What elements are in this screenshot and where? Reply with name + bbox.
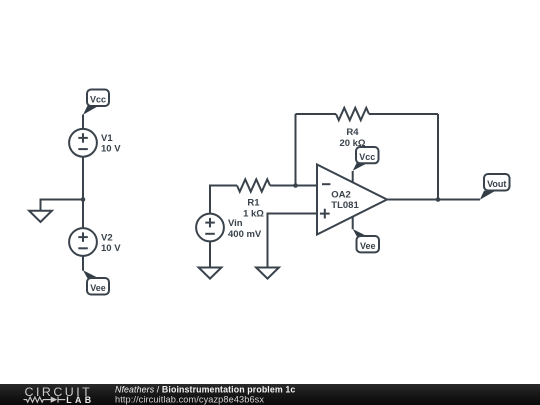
junction node output: [436, 197, 441, 202]
footer logo resistor-diode mark: [24, 397, 66, 403]
svg-text:http://circuitlab.com/cyazp8e4: http://circuitlab.com/cyazp8e43b6sx: [115, 394, 264, 404]
svg-text:OA2: OA2: [331, 189, 351, 200]
svg-text:V2: V2: [101, 232, 113, 243]
wire feedback top right: [369, 113, 438, 115]
net flag Vcc (left) wedge: [83, 106, 99, 115]
op-amp Vcc power pin: [352, 171, 354, 183]
op-amp OA2 triangle: [317, 165, 387, 235]
wire feedback right vertical: [437, 114, 439, 200]
svg-text:V1: V1: [101, 133, 113, 144]
svg-text:1 kΩ: 1 kΩ: [243, 209, 264, 220]
svg-text:Vee: Vee: [360, 241, 376, 251]
svg-text:10 V: 10 V: [101, 144, 121, 155]
svg-text:400 mV: 400 mV: [228, 229, 262, 240]
net flag Vout box: [484, 174, 510, 191]
net flag Vcc (op-amp) wedge: [353, 163, 368, 171]
svg-text:Vout: Vout: [487, 179, 506, 189]
net flag Vee (left) wedge: [83, 270, 99, 278]
resistor R4: [336, 108, 369, 120]
ground (non-inverting input): [256, 268, 279, 279]
net flag Vee (op-amp) box: [357, 236, 380, 252]
wire Vin to R1: [210, 186, 237, 214]
wire junction to ground: [41, 200, 84, 211]
wire feedback top left: [296, 113, 337, 115]
svg-text:LAB: LAB: [66, 395, 94, 405]
wire V2 to Vee: [82, 256, 84, 271]
ground (left): [29, 211, 52, 222]
wire Vin to ground: [209, 241, 211, 267]
ground (Vin): [199, 268, 222, 279]
wire feedback left vertical: [295, 114, 297, 186]
net flag Vee (left) box: [87, 278, 109, 295]
voltage source Vin: [196, 214, 224, 242]
net flag Vout wedge: [480, 191, 496, 200]
svg-text:10 V: 10 V: [101, 243, 121, 254]
svg-text:Nfeathers / Bioinstrumentation: Nfeathers / Bioinstrumentation problem 1…: [115, 384, 295, 394]
svg-text:TL081: TL081: [331, 200, 359, 211]
svg-text:R4: R4: [346, 127, 359, 138]
net flag Vcc (op-amp) box: [356, 147, 379, 163]
net flag Vee (op-amp) wedge: [353, 229, 368, 236]
label R4 20 kOhm: [339, 127, 365, 149]
wire Vcc to V1: [82, 115, 84, 129]
svg-text:Vcc: Vcc: [90, 95, 106, 105]
junction node: [81, 197, 86, 202]
net flag Vcc (left) box: [87, 90, 109, 107]
label V1 10 V: [101, 133, 121, 155]
label OA2 TL081: [331, 189, 359, 211]
label Vin 400 mV: [228, 218, 262, 240]
wire V1 to V2: [82, 157, 84, 228]
resistor R1: [237, 179, 270, 191]
svg-text:R1: R1: [247, 198, 260, 209]
svg-text:Vin: Vin: [228, 218, 243, 229]
label V2 10 V: [101, 232, 121, 254]
wire R1 to op-amp inverting input: [270, 185, 317, 187]
wire non-inverting input: [268, 214, 318, 268]
wire op-amp output: [387, 199, 480, 201]
voltage source V2: [69, 228, 97, 256]
footer bar: [0, 384, 540, 405]
op-amp minus input symbol: [322, 183, 330, 185]
svg-text:Vee: Vee: [90, 283, 106, 293]
junction node inverting input: [293, 183, 298, 188]
svg-text:Vcc: Vcc: [359, 152, 375, 162]
voltage source V1: [69, 129, 97, 157]
op-amp Vee power pin: [352, 217, 354, 230]
op-amp plus input symbol: [320, 209, 330, 219]
label R1 1 kOhm: [243, 198, 264, 220]
